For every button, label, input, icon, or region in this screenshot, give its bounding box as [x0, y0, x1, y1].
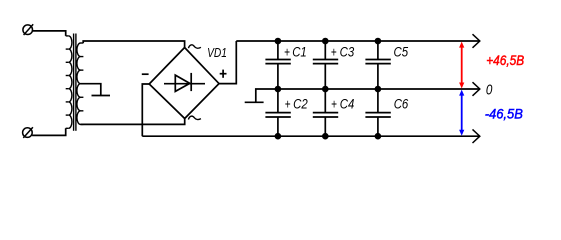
svg-text:C5: C5: [394, 44, 409, 59]
svg-text:C3: C3: [340, 44, 355, 59]
svg-text:C1: C1: [292, 44, 307, 59]
svg-text:+46,5В: +46,5В: [486, 52, 524, 68]
svg-text:+: +: [285, 96, 291, 111]
svg-text:C4: C4: [340, 96, 355, 111]
svg-text:+: +: [331, 96, 337, 111]
svg-text:+: +: [331, 44, 337, 59]
svg-text:VD1: VD1: [207, 45, 227, 60]
svg-text:C6: C6: [394, 96, 409, 111]
svg-text:C2: C2: [293, 96, 308, 111]
svg-text:+: +: [284, 44, 290, 59]
svg-text:-46,5В: -46,5В: [485, 105, 523, 121]
svg-text:0: 0: [486, 82, 493, 99]
